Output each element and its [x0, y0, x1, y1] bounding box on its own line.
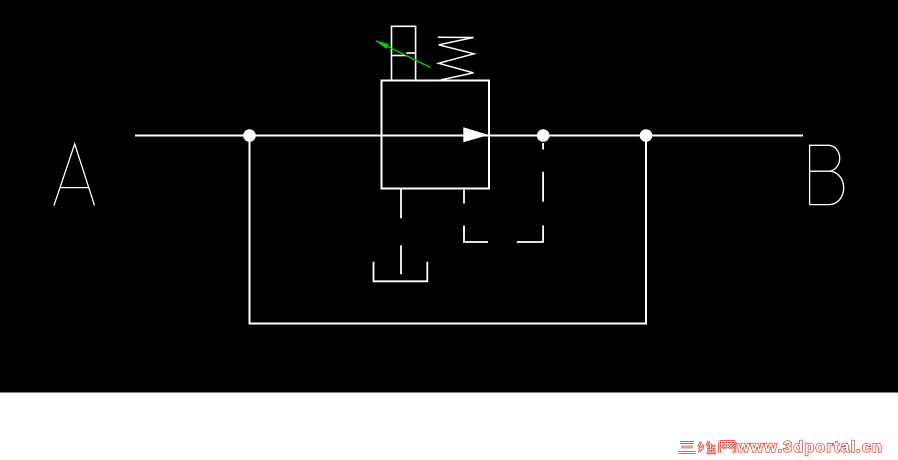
- tank symbol: [374, 262, 428, 282]
- port label A: [54, 144, 95, 206]
- valve body V1: [382, 81, 490, 189]
- svg-text:www.3dportal.cn: www.3dportal.cn: [736, 439, 883, 456]
- bypass loop wire: [250, 136, 647, 324]
- pilot stem box: [392, 26, 416, 80]
- port label B: [810, 145, 844, 204]
- spring: [438, 37, 474, 80]
- pilot sense dashed: left corner dash: [464, 226, 488, 243]
- watermark: 维: [699, 441, 717, 453]
- watermark: 三: [679, 443, 696, 453]
- pilot sense dashed: valve-side vertical dash: [463, 190, 465, 204]
- junction dot left: [243, 129, 256, 142]
- adjustment arrow (green): [376, 41, 431, 68]
- pilot sense dashed: right corner dash: [517, 226, 543, 243]
- junction dot right: [640, 129, 653, 142]
- flow arrow inside valve: [463, 127, 489, 142]
- pilot sense dashed: short dash under dot: [542, 143, 544, 150]
- watermark: 网: [720, 442, 736, 454]
- main line A to B: [135, 135, 803, 137]
- seat line left: [392, 55, 406, 57]
- drain line dash 1: [400, 189, 402, 218]
- junction dot middle (pilot tap): [537, 129, 550, 142]
- seat line right: [406, 52, 415, 54]
- pilot sense dashed: long vertical dash: [542, 172, 544, 202]
- drain line dash 2: [400, 245, 402, 274]
